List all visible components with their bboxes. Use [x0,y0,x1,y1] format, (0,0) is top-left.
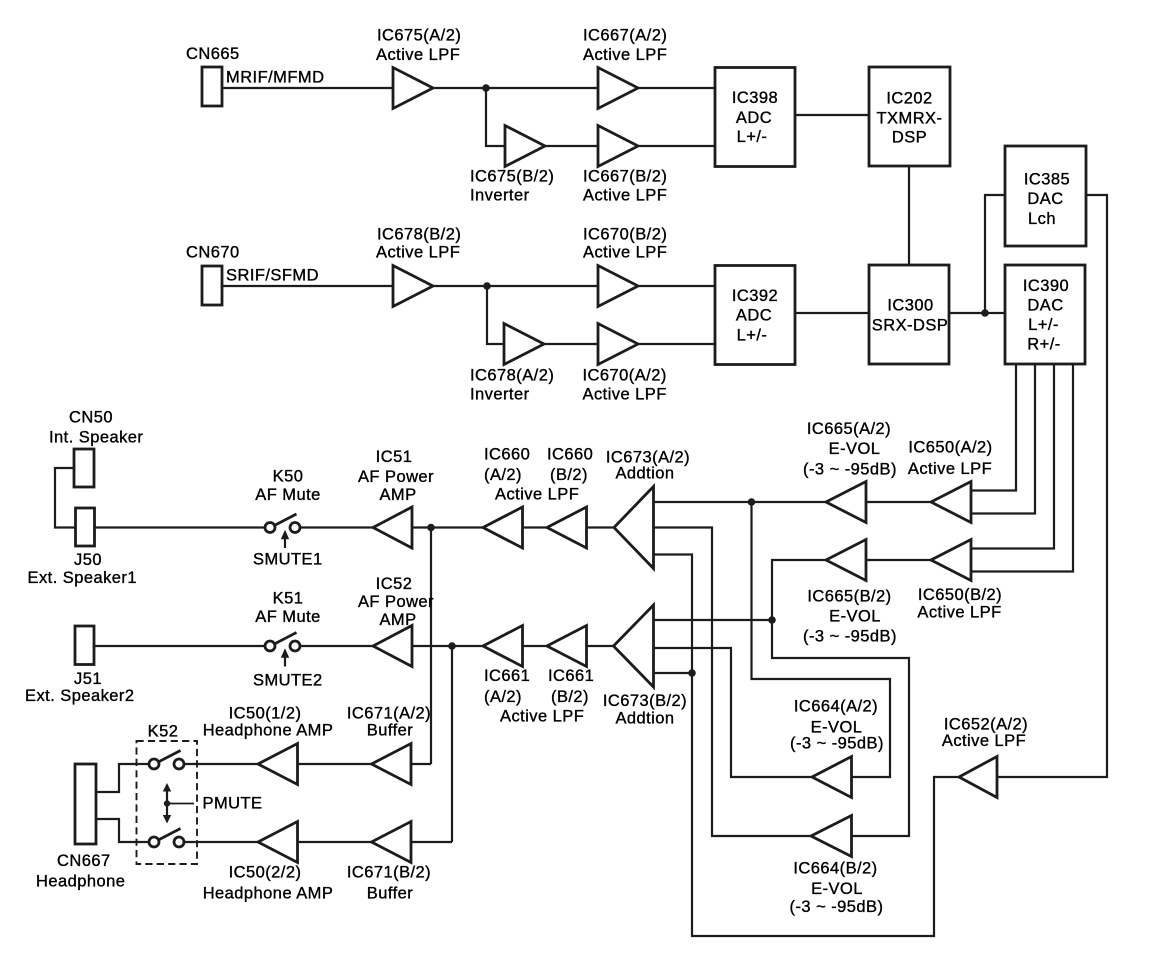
wire IC675(B/2) to IC667(B/2) [545,145,598,147]
svg-text:Active LPF: Active LPF [495,486,579,504]
svg-text:L+/-: L+/- [1028,316,1059,334]
svg-text:IC670(A/2): IC670(A/2) [583,367,667,385]
wire CN50 to J50 [55,468,76,528]
junction node F [688,669,696,677]
svg-text:Active LPF: Active LPF [942,732,1026,750]
op-amp IC652(A/2) Active LPF [942,716,1028,798]
svg-text:IC661: IC661 [484,667,530,685]
IC U398 ADC [715,68,795,167]
node SMUTE1 control arrow [253,530,323,569]
wire CN670 to IC678(B/2) [222,285,393,287]
wire IC390 out L- to IC650(A/2) [971,364,1035,514]
op-amp IC667(A/2) Active LPF [583,27,667,109]
svg-text:DAC: DAC [1027,190,1063,208]
svg-text:Active LPF: Active LPF [917,604,1001,622]
wire IC392 to IC300 [795,312,869,314]
svg-text:CN50: CN50 [69,409,113,427]
svg-text:SMUTE1: SMUTE1 [253,551,323,569]
junction node E [748,498,756,506]
svg-text:AF Power: AF Power [358,468,434,486]
op-amp IC665(B/2) E-VOL [803,540,897,646]
connector CN667 Headphone [36,764,125,891]
svg-text:Headphone: Headphone [36,873,125,891]
svg-text:SRX-DSP: SRX-DSP [872,316,949,334]
op-amp IC670(A/2) Active LPF [583,324,667,404]
IC U392 ADC [715,266,795,365]
op-amp IC671(A/2) Buffer [347,705,431,785]
relay K52 dashed box [137,723,198,865]
op-amp IC671(B/2) Buffer [347,822,431,903]
wire IC390 out R+ to IC650(B/2) [971,364,1054,549]
svg-text:IC665(A/2): IC665(A/2) [807,420,891,438]
op-amp IC660(A/2) [483,445,530,548]
wire IC52 to IC661(A/2) [412,645,483,647]
svg-text:IC650(B/2): IC650(B/2) [918,586,1002,604]
svg-text:E-VOL: E-VOL [829,440,881,458]
wire IC661(B/2) to IC673(B/2) [587,645,614,647]
svg-text:(B/2): (B/2) [550,466,588,484]
op-amp IC660(B/2) Active LPF [495,445,593,548]
wire IC390 out L+ to IC650(A/2) [971,364,1016,491]
junction node B [483,282,491,290]
wire IC665(B/2) output to IC673(B/2) top input [654,560,827,620]
svg-text:Active LPF: Active LPF [583,187,667,205]
switch K51 AF Mute [255,590,321,652]
wire branch node A down to IC675(B/2) [486,88,505,146]
op-amp IC661(B/2) Active LPF [500,626,594,726]
wire J50 to K50 [95,526,266,528]
svg-text:IC50(1/2): IC50(1/2) [229,705,302,723]
wire CN665 to IC675(A/2) [222,87,393,89]
svg-text:ADC: ADC [736,307,772,325]
svg-text:AMP: AMP [379,486,416,504]
connector CN665 [186,45,240,106]
svg-text:DSP: DSP [892,129,927,147]
wire IC664(A/2) output to IC673(B/2) middle input [654,648,813,777]
svg-text:(A/2): (A/2) [484,688,522,706]
IC U390 DAC [1005,265,1085,364]
op-amp IC650(B/2) Active LPF [917,540,1002,622]
svg-text:K50: K50 [273,468,304,486]
svg-text:Active LPF: Active LPF [376,244,460,262]
wire IC678(A/2) to IC670(A/2) [544,343,598,345]
op-amp IC670(B/2) Active LPF [583,226,667,307]
svg-text:Inverter: Inverter [470,187,530,205]
svg-text:Active LPF: Active LPF [583,46,667,64]
op-amp IC673(B/2) Addtion [603,605,687,728]
svg-text:Addtion: Addtion [615,710,674,728]
wire IC670(B/2) to IC392 [638,285,715,287]
junction node H [768,616,776,624]
svg-text:IC670(B/2): IC670(B/2) [583,226,667,244]
svg-text:IC385: IC385 [1024,170,1070,188]
wire IC660(B/2) to IC673(A/2) [587,526,615,528]
svg-text:Active LPF: Active LPF [583,244,667,262]
svg-text:Buffer: Buffer [367,885,413,903]
op-amp IC661(A/2) [483,626,530,707]
svg-text:SRIF/SFMD: SRIF/SFMD [226,267,319,285]
wire IC652(A/2) output to IC673(A/2) bottom input [654,555,960,937]
svg-text:(-3 ~ -95dB): (-3 ~ -95dB) [803,628,897,646]
junction node A [482,84,490,92]
op-amp IC665(A/2) E-VOL [803,420,897,523]
svg-text:IC660: IC660 [547,445,593,463]
svg-text:Lch: Lch [1028,210,1056,228]
wire IC670(A/2) to IC392 [638,343,715,345]
node SMUTE2 control arrow [253,648,323,689]
svg-text:Ext. Speaker1: Ext. Speaker1 [28,569,138,587]
svg-text:CN670: CN670 [186,244,240,262]
wire K52 lower to IC50(2/2) [184,841,258,843]
svg-text:IC392: IC392 [732,287,778,305]
svg-text:MRIF/MFMD: MRIF/MFMD [226,69,324,87]
wire IC50(1/2) to IC671(A/2) [298,763,372,765]
svg-text:IC661: IC661 [548,667,594,685]
op-amp IC678(B/2) Active LPF [376,226,461,307]
svg-text:CN667: CN667 [57,852,111,870]
wire IC385 left pin to node C [985,195,1005,313]
svg-text:IC50(2/2): IC50(2/2) [229,864,302,882]
svg-text:SMUTE2: SMUTE2 [253,672,323,690]
svg-text:IC51: IC51 [376,448,413,466]
svg-text:CN665: CN665 [186,45,240,63]
wire IC202 down to IC300 [908,166,910,265]
junction node G [448,642,456,650]
svg-text:IC667(B/2): IC667(B/2) [583,168,667,186]
svg-text:K51: K51 [273,590,304,608]
IC U202 TXMRX-DSP [869,67,950,166]
svg-text:ADC: ADC [736,109,772,127]
wire IC675(A/2) to IC667(A/2) [433,87,598,89]
svg-text:R+/-: R+/- [1027,336,1060,354]
svg-text:Active LPF: Active LPF [583,386,667,404]
svg-text:Int. Speaker: Int. Speaker [49,429,143,447]
svg-text:IC660: IC660 [484,445,530,463]
svg-text:E-VOL: E-VOL [811,718,863,736]
op-amp IC51 AF Power AMP [358,448,434,548]
wire K52 upper to IC50(1/2) [184,763,258,765]
wire K51 to IC52 [300,645,373,647]
op-amp IC50(1/2) Headphone AMP [203,705,334,785]
wire IC51 to IC660(A/2) [412,526,483,528]
wire node H down to IC664(B/2) input [772,620,909,836]
svg-text:IC398: IC398 [732,89,778,107]
op-amp IC675(A/2) Active LPF [376,27,461,109]
svg-text:IC673(B/2): IC673(B/2) [603,692,687,710]
svg-text:(A/2): (A/2) [484,466,522,484]
svg-text:Ext. Speaker2: Ext. Speaker2 [25,687,135,705]
IC U300 SRX-DSP [869,265,949,364]
IC U385 DAC Lch [1005,146,1086,246]
wire node G down to IC671(B/2) [451,646,453,842]
svg-text:E-VOL: E-VOL [829,607,881,625]
wire J51 to K51 [94,645,265,647]
svg-text:(-3 ~ -95dB): (-3 ~ -95dB) [790,735,884,753]
svg-text:IC667(A/2): IC667(A/2) [583,27,667,45]
svg-text:IC675(A/2): IC675(A/2) [377,27,461,45]
wire IC398 to IC202 [795,114,869,116]
wire IC385 right pin to IC652(A/2) input [997,195,1107,777]
wire IC671(B/2) input from node G [411,841,452,843]
svg-text:IC300: IC300 [887,297,933,315]
svg-text:Active LPF: Active LPF [908,460,992,478]
svg-text:IC52: IC52 [376,575,413,593]
switch K52 lower contact [149,829,184,848]
wire IC665(A/2) to IC673(A/2) top input [654,501,827,503]
wire CN667 lower pin to K52 [96,819,149,842]
op-amp IC50(2/2) Headphone AMP [203,822,334,903]
svg-text:J51: J51 [74,670,102,688]
svg-text:Addtion: Addtion [615,464,674,482]
svg-text:Headphone AMP: Headphone AMP [203,722,334,740]
svg-text:IC678(B/2): IC678(B/2) [377,226,461,244]
connector J50 Ext. Speaker1 [28,508,138,587]
svg-text:Inverter: Inverter [470,386,530,404]
svg-text:Buffer: Buffer [367,722,413,740]
switch K50 AF Mute [255,468,321,533]
node PMUTE control arrows [163,783,263,824]
wire IC300 to IC390 [949,312,1005,314]
svg-text:AF Power: AF Power [358,593,434,611]
op-amp IC667(B/2) Active LPF [583,126,667,205]
wire CN667 upper pin to K52 [96,764,149,792]
op-amp IC664(A/2) E-VOL [790,698,884,798]
connector J51 Ext. Speaker2 [25,626,135,705]
wire IC650(B/2) to IC665(B/2) [866,559,931,561]
svg-text:(-3 ~ -95dB): (-3 ~ -95dB) [803,461,897,479]
connector CN50 Int. Speaker [49,409,143,488]
svg-text:IC675(B/2): IC675(B/2) [470,168,554,186]
switch K52 upper contact [149,751,184,770]
wire IC660(A/2) to IC660(B/2) [523,526,548,528]
svg-text:PMUTE: PMUTE [203,795,263,813]
op-amp IC673(A/2) Addtion [606,449,690,569]
wire IC667(A/2) to IC398 [638,87,715,89]
svg-text:IC664(B/2): IC664(B/2) [793,860,877,878]
connector CN670 [186,244,240,306]
op-amp IC678(A/2) Inverter [470,324,554,404]
wire IC667(B/2) to IC398 [638,145,715,147]
svg-text:Headphone AMP: Headphone AMP [203,885,334,903]
svg-text:IC664(A/2): IC664(A/2) [794,698,878,716]
svg-text:TXMRX-: TXMRX- [877,110,943,128]
svg-text:K52: K52 [148,723,179,741]
wire node D down to IC671(A/2) [430,528,432,765]
svg-text:IC671(A/2): IC671(A/2) [347,705,431,723]
wire IC50(2/2) to IC671(B/2) [298,841,372,843]
op-amp IC664(B/2) E-VOL [790,816,884,917]
svg-text:IC671(B/2): IC671(B/2) [347,864,431,882]
svg-text:AF Mute: AF Mute [255,486,321,504]
svg-text:AMP: AMP [379,611,416,629]
svg-text:(-3 ~ -95dB): (-3 ~ -95dB) [790,898,884,916]
svg-text:(B/2): (B/2) [551,688,589,706]
wire node F to IC673(B/2) bottom input [654,672,693,674]
wire K50 to IC51 [300,526,373,528]
svg-text:L+/-: L+/- [737,326,768,344]
wire IC671(A/2) input from node D [411,763,431,765]
op-amp IC675(B/2) Inverter [470,126,554,205]
svg-text:IC202: IC202 [886,90,932,108]
svg-text:Active LPF: Active LPF [376,46,460,64]
svg-text:L+/-: L+/- [737,128,768,146]
svg-text:IC652(A/2): IC652(A/2) [944,716,1028,734]
svg-text:E-VOL: E-VOL [811,880,863,898]
svg-text:J50: J50 [74,551,102,569]
svg-text:IC678(A/2): IC678(A/2) [470,367,554,385]
wire branch node B down to IC678(A/2) [487,286,504,344]
wire IC650(A/2) to IC665(A/2) [866,501,931,503]
op-amp IC650(A/2) Active LPF [908,439,993,523]
junction node C [981,309,989,317]
svg-text:IC665(B/2): IC665(B/2) [807,587,891,605]
wire IC661(A/2) to IC661(B/2) [523,645,548,647]
svg-text:DAC: DAC [1027,297,1063,315]
wire IC664(B/2) output to IC673(A/2) middle input [654,528,812,837]
wire IC678(B/2) to IC670(B/2) [433,285,598,287]
wire node E down to IC664(A/2) input [752,502,891,777]
junction node D [427,524,435,532]
svg-text:Active LPF: Active LPF [500,708,584,726]
wire IC390 out R- to IC650(B/2) [971,364,1073,572]
op-amp IC52 AF Power AMP [358,575,434,667]
svg-text:IC390: IC390 [1023,277,1069,295]
svg-text:IC650(A/2): IC650(A/2) [908,439,992,457]
svg-text:AF Mute: AF Mute [255,608,321,626]
